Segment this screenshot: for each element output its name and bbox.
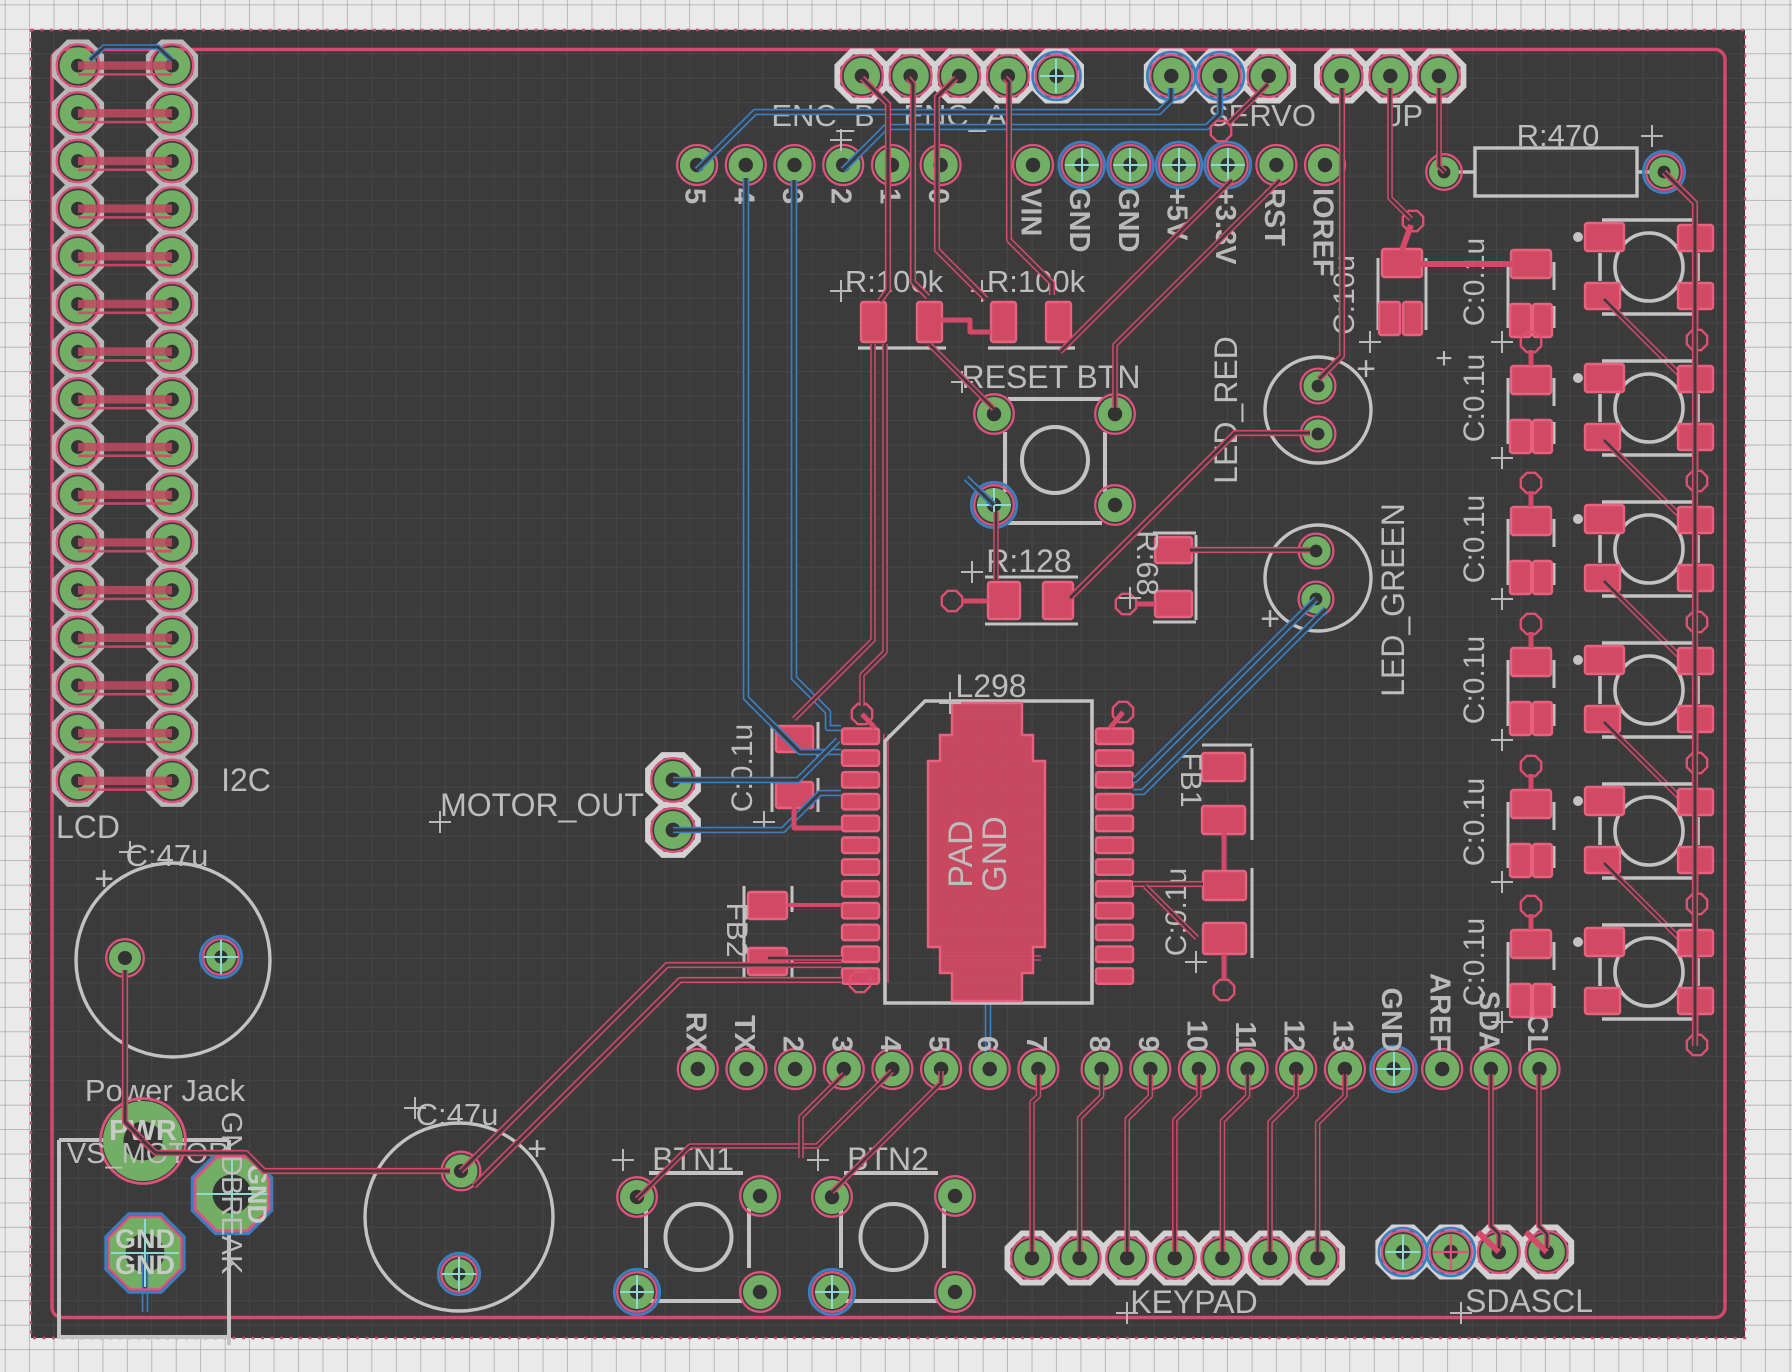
connector LCD header 2x16 [54,42,195,804]
wire red pin to KEYPAD 3 [1127,1074,1150,1252]
push button BTN1 [612,1149,780,1315]
capacitor C:0.1u #6 (right column) [1491,896,1554,1033]
svg-text:MOTOR_OUT: MOTOR_OUT [440,787,644,823]
resistor R:100k (right) [971,280,1075,348]
wire red trace under L298 [944,955,1041,961]
wire red RESET pad to R:128 [993,512,999,580]
svg-text:3: 3 [825,1036,857,1052]
connector SDASCL header [1378,1228,1571,1325]
wire red trace along L298 left pads [883,734,889,983]
svg-text:R:470: R:470 [1517,118,1600,153]
resistor R:100k (left) [830,280,946,348]
wire red JP pin3 to R:470 [1439,88,1445,172]
wire red top rail jumpers: ENC_B pads down to R:100k resistors [862,78,888,301]
svg-text:KEYPAD: KEYPAD [1130,1284,1257,1320]
svg-text:C:0.1u: C:0.1u [1458,354,1491,442]
wire red FB2 top link [787,903,842,907]
wire red R:100k1 down to C:0.1u [794,344,873,719]
wire red BTN2 to pin5 [832,1071,941,1192]
svg-text:8: 8 [1083,1036,1115,1052]
push button SW2 (right column) [1573,361,1713,455]
svg-text:FB1: FB1 [1174,752,1207,807]
capacitor C:0.1u #4 (right column) [1491,614,1554,751]
svg-text:AREF: AREF [1424,973,1456,1052]
wire red pin to KEYPAD 4 [1175,1074,1199,1252]
connector JP header [1317,52,1463,101]
ferrite bead FB1 [1202,745,1252,840]
wire red button SW5 tail [1694,861,1699,895]
wire red button SW5 diagonal [1604,863,1695,954]
connector SERVO header [1147,52,1293,101]
svg-text:GND: GND [1063,188,1095,252]
pad L298 pin L12 [842,968,879,984]
svg-text:2: 2 [825,188,857,204]
connector KEYPAD header [1008,1234,1343,1325]
wire blue ENC bundle horizontal 2 [843,88,1220,170]
wire red pin to KEYPAD 6 [1270,1074,1296,1252]
connector ENC_B / ENC_A header [837,52,1081,101]
capacitor C:47u (LCD) [76,841,270,1057]
svg-text:11: 11 [1229,1021,1261,1052]
wire red C:47u to L298 supply B [474,980,842,1186]
svg-text:VIN: VIN [1015,188,1047,236]
wire red PWR jack riser [125,970,143,1140]
wire red +3.3V diagonal to R:100k [1060,180,1232,352]
capacitor C:47u (motor) [365,1097,553,1311]
push button SW1 (right column) [1573,220,1713,314]
wire blue LCD row1 arc [90,47,172,60]
svg-text:5: 5 [679,188,711,204]
wire blue MOTOR_OUT pin2 to L298 [673,793,841,830]
svg-text:+: + [1356,350,1376,388]
wire blue digital pad3 to L298 [794,180,841,728]
connector digital pins 5..0 [677,145,961,204]
svg-text:PAD: PAD [942,820,980,887]
wire blue LED_GREEN cathode to L298 [1133,599,1316,780]
IC L298 [842,692,1133,1003]
wire red button SW1 diagonal [1604,299,1695,390]
wire red SDA to SDASCL [1491,1074,1499,1248]
wire red button SW3 tail [1694,579,1699,613]
pad L298 pin R8 [1096,881,1133,897]
svg-text:C:0.1u: C:0.1u [726,724,759,812]
wire red button SW4 tail [1694,720,1699,754]
push button SW4 (right column) [1573,643,1713,737]
wire red SERVO pin3 stub [1228,84,1268,124]
svg-text:GND: GND [1112,188,1144,252]
pad L298 pin L11 [842,947,879,963]
svg-text:12: 12 [1278,1020,1310,1052]
wire blue ENC bundle horizontal 1 [697,88,1171,170]
connector power pins VIN..IOREF [1013,142,1345,277]
wire red button SW3 diagonal [1604,581,1695,672]
svg-text:LED_RED: LED_RED [1208,336,1244,484]
svg-text:SDASCL: SDASCL [1465,1283,1593,1319]
pad L298 pin R9 [1096,903,1133,919]
wire red R:68 to LED_GREEN [1190,547,1310,553]
pad L298 pin L2 [842,750,879,766]
push button SW3 (right column) [1573,502,1713,596]
svg-text:+: + [94,860,114,898]
svg-text:LED_GREEN: LED_GREEN [1375,503,1411,697]
pad L298 pin L8 [842,881,879,897]
push button RESET BTN [951,371,1135,528]
capacitor C:0.1u (L298 left) [753,722,818,833]
resistor R:128 [942,561,1078,624]
svg-text:C:47u: C:47u [416,1097,499,1132]
ferrite bead FB2 [744,886,792,982]
svg-text:TX: TX [728,1015,760,1053]
wire red button SW1 tail [1694,297,1699,331]
svg-text:C:0.1u: C:0.1u [1458,918,1491,1006]
pad L298 pin R7 [1096,859,1133,875]
LED LED_GREEN [1260,525,1371,638]
wire red pin to KEYPAD 7 [1318,1074,1345,1252]
pad PWR (power jack) [101,1099,186,1184]
pad L298 pin L1 [842,729,879,745]
wire red pin to KEYPAD 5 [1222,1074,1247,1252]
wire red C:47u to L298 supply A [461,965,842,1171]
connector MOTOR_OUT [429,755,698,855]
wire blue digital pad4 to L298 [746,178,841,752]
capacitor C:0.1u #1 (right column) [1491,250,1554,353]
svg-text:+: + [1435,342,1453,375]
svg-text:13: 13 [1326,1020,1358,1052]
push button SW6 (right column) [1573,925,1713,1019]
wire red PWR to C:47u [143,1141,450,1171]
resistor R:68 [1116,533,1196,622]
svg-text:7: 7 [1020,1036,1052,1052]
svg-text:I2C: I2C [221,762,271,798]
pad L298 pin R11 [1096,947,1133,963]
wire red R:100k1 down to L298 via [862,344,885,706]
svg-text:C:0.1u: C:0.1u [1458,778,1491,866]
pad L298 pin L10 [842,925,879,941]
LED LED_RED [1265,350,1376,463]
svg-text:R:68: R:68 [1130,530,1165,595]
svg-text:GND: GND [976,816,1014,892]
wire red R:128 to LED_RED [1070,433,1310,598]
svg-text:BTN2: BTN2 [847,1141,929,1177]
capacitor C:0.1u #5 (right column) [1491,756,1554,893]
svg-text:R:128: R:128 [986,543,1071,579]
wire red JP pin2 down to C:10u [1390,88,1411,219]
pad GNDBRK [192,1154,271,1233]
wire red SCL to SDASCL [1539,1074,1547,1248]
svg-text:+: + [1260,600,1280,638]
svg-text:9: 9 [1132,1036,1164,1052]
svg-text:6: 6 [971,1036,1003,1052]
svg-text:+: + [527,1130,547,1168]
svg-text:C:47u: C:47u [126,838,209,873]
pad L298 pin L3 [842,772,879,788]
svg-text:C:0.1u: C:0.1u [1458,238,1491,326]
Power Jack silkscreen [59,1140,229,1345]
pad L298 pin R5 [1096,816,1133,832]
wire red button SW4 diagonal [1604,722,1695,813]
capacitor C:10u [1359,211,1453,375]
pad L298 pin R1 [1096,729,1133,745]
push button BTN2 [807,1149,975,1315]
wire red BTN1 to pin4 [637,1071,892,1199]
wire red R:470 to button column [1664,172,1695,1046]
pad L298 pin R2 [1096,750,1133,766]
svg-text:2: 2 [777,1036,809,1052]
connector bottom pins 8..SCL [1082,973,1560,1092]
wire red RST diagonal to RESET BTN [1115,180,1280,408]
wire red button SW2 diagonal [1604,440,1695,531]
wire red button SW6 tail [1694,1002,1699,1036]
svg-text:C:0.1u: C:0.1u [1458,495,1491,583]
svg-text:RX: RX [679,1012,711,1053]
wire red PAD GND to FB1 [1133,881,1203,887]
pad PAD GND [928,703,1045,1001]
wire red R:100k to RESET BTN pad [929,344,994,409]
wire red JP pin1 down to LED_RED anode [1319,88,1342,379]
capacitor C:0.1u #2 (right column) [1491,332,1554,469]
wire blue MOTOR_OUT pin1 to L298 [673,740,838,780]
svg-text:4: 4 [874,1036,906,1052]
pad L298 pin R12 [1096,968,1133,984]
pad L298 pin R6 [1096,838,1133,854]
svg-text:FB2: FB2 [720,902,753,957]
wire red FB1 to C:0.1u [1222,830,1227,870]
pad L298 pin R4 [1096,794,1133,810]
svg-text:10: 10 [1180,1020,1212,1052]
pad L298 pin L4 [842,794,879,810]
pad L298 pin L6 [842,838,879,854]
capacitor C:0.1u #3 (right column) [1491,473,1554,610]
pad GND GND [106,1214,185,1312]
connector bottom digital pins RX..7 [678,1012,1059,1089]
pad L298 pin L5 [842,816,879,832]
svg-text:GND: GND [115,1250,175,1280]
svg-text:Power Jack: Power Jack [85,1073,246,1108]
pad L298 pin R10 [1096,925,1133,941]
svg-text:LCD: LCD [56,809,120,845]
wire red C:10u link to C:0.1u [1420,261,1513,267]
svg-text:ENC_B: ENC_B [771,98,874,133]
wire red FB2 link [768,955,842,961]
pad L298 pin L9 [842,903,879,919]
wire red pin to KEYPAD 1 [1032,1074,1038,1252]
push button SW5 (right column) [1573,784,1713,878]
svg-text:C:0.1u: C:0.1u [1458,636,1491,724]
pad L298 pin R3 [1096,772,1133,788]
wire red pin to KEYPAD 2 [1080,1074,1102,1252]
resistor R:470 [1426,125,1685,196]
wire blue second diagonal to L298 [1133,609,1326,792]
wire red pin3 stub [801,1074,844,1158]
svg-text:GND: GND [1375,988,1407,1052]
wire red R:100k link [941,320,991,332]
capacitor C:0.1u (FB1) [1185,868,1252,1000]
wire blue RESET button stub [966,478,994,505]
svg-text:L298: L298 [955,668,1026,704]
svg-text:5: 5 [923,1036,955,1052]
pad L298 pin L7 [842,859,879,875]
wire blue pin6 to L298 [985,1000,992,1066]
wire red button SW2 tail [1694,438,1699,472]
svg-text:SERVO: SERVO [1208,98,1316,133]
wire red C0.1u to L298 [794,806,841,828]
wire red L298 to C:0.1u diagonal [1145,886,1197,938]
